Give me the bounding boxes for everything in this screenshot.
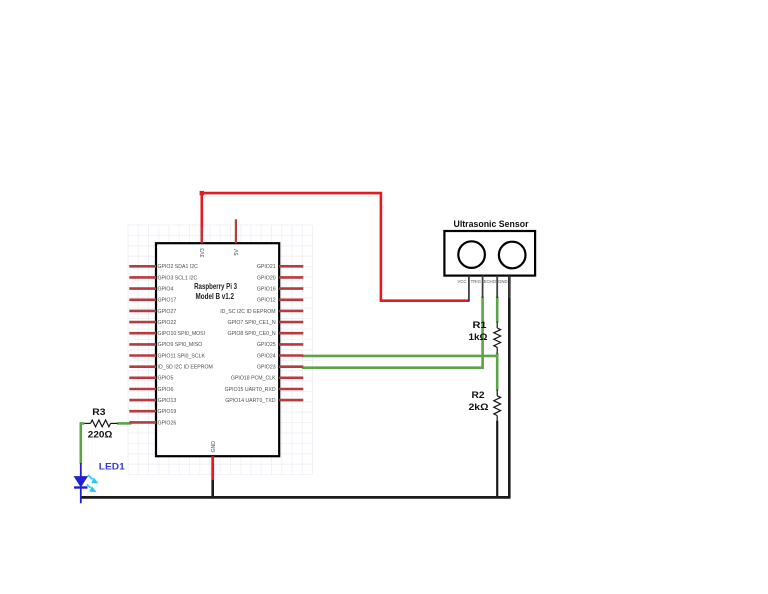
svg-text:GPIO4: GPIO4 [158, 287, 174, 293]
svg-text:GPIO3 SCL1 I2C: GPIO3 SCL1 I2C [158, 275, 198, 281]
wire: R3 left lead corner down to LED anode (green) [81, 423, 85, 463]
svg-text:GPIO13: GPIO13 [158, 398, 177, 404]
pin GPIO3 SCL1 I2C (left stub) [129, 275, 197, 281]
svg-text:GPIO11 SPI0_SCLK: GPIO11 SPI0_SCLK [158, 353, 206, 359]
wire: R1 bottom to junction to R2 top (green) [496, 353, 499, 391]
label R2 value [469, 390, 489, 413]
svg-text:GPIO25: GPIO25 [257, 342, 276, 348]
pin GPIO8 SPI0_CE0_N (right stub) [227, 331, 303, 337]
wire: ECHO down to R1 top (green) [496, 297, 499, 323]
svg-text:GPIO21: GPIO21 [257, 264, 276, 270]
svg-text:GIPO10 SPI0_MOSI: GIPO10 SPI0_MOSI [158, 331, 206, 337]
resistor R3 220 ohm [84, 420, 117, 427]
svg-text:GPIO7 SPI0_CE1_N: GPIO7 SPI0_CE1_N [227, 320, 275, 326]
sensor transducer right [499, 242, 526, 269]
pin GPIO11 SPI0_SCLK (left stub) [129, 353, 205, 359]
svg-text:R3: R3 [92, 407, 105, 418]
pin GPIO24 (right stub) [257, 353, 303, 359]
pin GPIO12 (right stub) [257, 298, 303, 304]
pin GPIO14 UART0_TXD (right stub) [225, 398, 303, 404]
pin GPIO22 (left stub) [129, 320, 176, 326]
pin ID_SC I2C ID EEPROM (right stub) [220, 309, 303, 315]
svg-text:Raspberry Pi 3: Raspberry Pi 3 [194, 282, 237, 291]
pin GPIO20 (right stub) [257, 275, 303, 281]
svg-text:GPIO24: GPIO24 [257, 353, 276, 359]
svg-text:ID_SC I2C ID EEPROM: ID_SC I2C ID EEPROM [220, 309, 275, 315]
svg-text:GPIO8 SPI0_CE0_N: GPIO8 SPI0_CE0_N [227, 331, 275, 337]
wire: GPIO23 to TRIG (green) [302, 297, 483, 368]
svg-text:GPIO2 SDA1 I2C: GPIO2 SDA1 I2C [158, 264, 199, 270]
wire: bottom ground rail (black) [81, 496, 510, 499]
svg-text:5V: 5V [234, 249, 240, 256]
svg-text:GPIO27: GPIO27 [158, 309, 177, 315]
pin GPIO16 (right stub) [257, 287, 303, 293]
pin GPIO18 PCM_CLK (right stub) [231, 376, 303, 382]
pin ECHO of sensor [484, 276, 498, 298]
svg-text:GPIO9 SPI0_MISO: GPIO9 SPI0_MISO [158, 342, 203, 348]
pin GPIO5 (left stub) [129, 376, 173, 382]
pin GPIO19 (left stub) [129, 409, 176, 415]
svg-text:GPIO6: GPIO6 [158, 387, 174, 393]
svg-text:GPIO22: GPIO22 [158, 320, 177, 326]
svg-text:LED1: LED1 [99, 461, 125, 471]
svg-text:GPIO5: GPIO5 [158, 376, 174, 382]
pin GPIO23 (right stub) [257, 365, 303, 371]
svg-text:GND: GND [211, 441, 217, 453]
wire: GPIO26 to R3 (green) [117, 422, 132, 425]
pin GPIO25 (right stub) [257, 342, 303, 348]
label R1 value [469, 320, 488, 343]
svg-text:GND: GND [498, 279, 508, 284]
wire: 3V3 of Pi to VCC of sensor (red) [202, 193, 469, 301]
svg-text:GPIO26: GPIO26 [158, 420, 177, 426]
sensor transducer left [458, 241, 485, 268]
LED LED1 (blue diode symbol) [74, 463, 87, 503]
pin GPIO17 (left stub) [129, 298, 176, 304]
svg-text:220Ω: 220Ω [88, 429, 113, 440]
pin GPIO9 SPI0_MISO (left stub) [129, 342, 202, 348]
pin 5V (top stub) [234, 219, 240, 255]
LED light-emission arrows (cyan) [87, 475, 99, 492]
svg-text:TRIG: TRIG [471, 279, 482, 284]
pin ID_SD I2C ID EEPROM (left stub) [129, 365, 213, 371]
svg-text:ID_SD I2C ID EEPROM: ID_SD I2C ID EEPROM [158, 365, 213, 371]
svg-text:2kΩ: 2kΩ [469, 402, 489, 413]
svg-text:Model B v1.2: Model B v1.2 [196, 292, 235, 301]
pin GPIO27 (left stub) [129, 309, 176, 315]
pin GIPO10 SPI0_MOSI (left stub) [129, 331, 205, 337]
pin GPIO15 UART0_RXD (right stub) [225, 387, 304, 393]
label R3 value [88, 407, 113, 440]
junction bendpoint on 3V3 wire [200, 191, 204, 195]
wire: sensor GND down to ground rail (black) [508, 276, 511, 499]
pin GPIO21 (right stub) [257, 264, 303, 270]
pin GPIO2 SDA1 I2C (left stub) [129, 264, 198, 270]
svg-text:GPIO15 UART0_RXD: GPIO15 UART0_RXD [225, 387, 276, 393]
wire: Pi GND pin lead to ground rail (black) [211, 480, 214, 498]
resistor R2 2k ohm [494, 390, 501, 422]
wire: R2 bottom to ground rail (black) [496, 421, 498, 498]
pin GPIO4 (left stub) [129, 287, 173, 293]
svg-text:GPIO19: GPIO19 [158, 409, 177, 415]
svg-text:GPIO16: GPIO16 [257, 287, 276, 293]
pin VCC of sensor [457, 276, 468, 302]
svg-text:Ultrasonic Sensor: Ultrasonic Sensor [454, 219, 529, 230]
label: Raspberry Pi 3 Model B v1.2 [194, 282, 237, 301]
Ultrasonic Sensor body [444, 231, 535, 276]
pin 3V3 (top stub) [200, 227, 206, 258]
wire: GPIO24 to R1/R2 junction (green) [302, 355, 497, 358]
svg-text:1kΩ: 1kΩ [469, 332, 488, 343]
svg-text:GPIO12: GPIO12 [257, 298, 276, 304]
pin GPIO7 SPI0_CE1_N (right stub) [227, 320, 303, 326]
resistor R1 1k ohm [494, 322, 501, 354]
svg-text:3V3: 3V3 [200, 248, 206, 257]
background grid [128, 225, 313, 475]
svg-text:GPIO20: GPIO20 [257, 275, 276, 281]
Raspberry Pi 3 module body [156, 243, 279, 456]
pin TRIG of sensor [471, 276, 483, 298]
svg-text:GPIO17: GPIO17 [158, 298, 177, 304]
pin GND of sensor [498, 276, 509, 298]
svg-text:VCC: VCC [457, 279, 466, 284]
svg-text:R1: R1 [473, 320, 488, 331]
pin GPIO6 (left stub) [129, 387, 173, 393]
svg-text:GPIO18 PCM_CLK: GPIO18 PCM_CLK [231, 376, 276, 382]
svg-text:GPIO14 UART0_TXD: GPIO14 UART0_TXD [225, 398, 276, 404]
svg-text:ECHO: ECHO [484, 279, 497, 284]
svg-text:R2: R2 [472, 390, 485, 401]
svg-text:GPIO23: GPIO23 [257, 365, 276, 371]
pin GPIO13 (left stub) [129, 398, 176, 404]
pin GPIO26 (left stub) [129, 420, 176, 426]
pin GND (bottom stub, red) [211, 441, 217, 480]
